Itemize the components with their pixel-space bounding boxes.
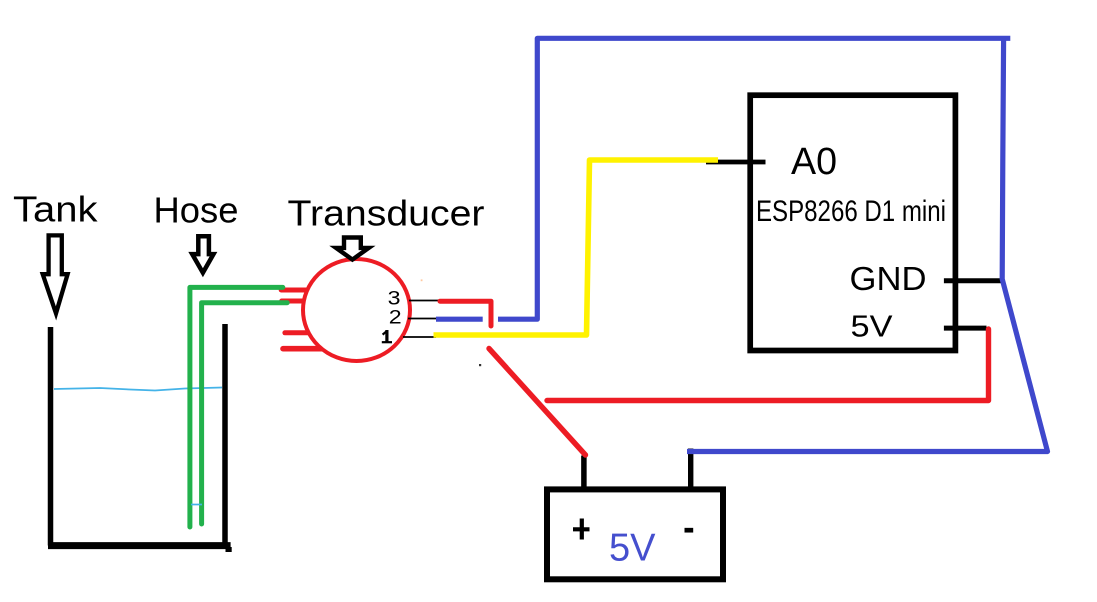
svg-text:GND: GND: [850, 260, 927, 297]
svg-text:5V: 5V: [609, 527, 656, 570]
svg-text:ESP8266 D1 mini: ESP8266 D1 mini: [756, 195, 946, 228]
svg-text:Tank: Tank: [13, 189, 99, 230]
svg-text:A0: A0: [791, 141, 837, 183]
svg-text:2: 2: [389, 307, 402, 328]
svg-text:5V: 5V: [851, 309, 893, 344]
svg-text:Hose: Hose: [154, 190, 239, 231]
svg-text:3: 3: [388, 288, 401, 309]
svg-text:Transducer: Transducer: [288, 193, 485, 234]
